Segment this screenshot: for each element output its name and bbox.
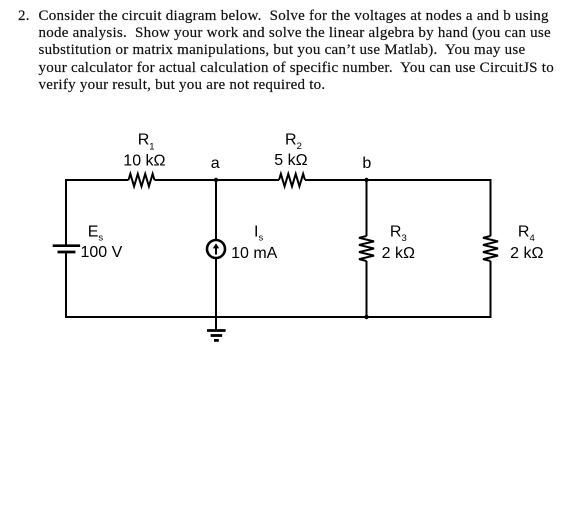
junction dot R3/bottom rail: [364, 315, 368, 319]
wire: node b to top-right corner: [367, 179, 492, 181]
wire: top rail E_s to R1: [65, 179, 129, 181]
svg-text:100 V: 100 V: [81, 244, 123, 261]
svg-text:a: a: [211, 155, 220, 172]
voltage source E_s battery short plate: [58, 251, 76, 254]
wire: node b down to R3: [366, 180, 368, 236]
current source I_s arrow shaft: [215, 246, 217, 255]
svg-text:Is: Is: [254, 224, 263, 244]
resistor R3: [359, 236, 374, 261]
wire: R1 to node a: [155, 179, 217, 181]
wire: right rail top (corner to R4): [490, 179, 492, 236]
wire: bottom rail: [65, 316, 492, 318]
wire: node a to R2: [216, 179, 279, 181]
svg-text:2 kΩ: 2 kΩ: [382, 245, 415, 262]
svg-text:R4: R4: [518, 224, 535, 244]
wire: ground stub: [215, 317, 217, 331]
wire: right rail bottom (R4 to bottom rail): [490, 261, 492, 318]
svg-text:10 mA: 10 mA: [231, 245, 278, 262]
current source I_s circle: [207, 240, 225, 258]
svg-text:2 kΩ: 2 kΩ: [510, 245, 543, 262]
svg-text:10 kΩ: 10 kΩ: [123, 153, 165, 170]
ground symbol: [207, 331, 226, 341]
svg-text:R2: R2: [285, 131, 302, 152]
svg-text:5 kΩ: 5 kΩ: [274, 152, 307, 169]
node a junction dot: [214, 178, 218, 182]
svg-text:b: b: [362, 155, 371, 172]
wire: current source to bottom rail: [215, 258, 217, 317]
wire: left rail top (top rail to E_s): [65, 179, 67, 246]
svg-text:Es: Es: [88, 224, 104, 244]
resistor R2: [279, 174, 305, 187]
current source I_s arrow head: [213, 243, 219, 248]
resistor R1: [129, 174, 155, 187]
svg-text:R1: R1: [138, 132, 155, 153]
voltage source E_s battery long plate: [53, 244, 80, 247]
wire: R2 to node b: [305, 179, 367, 181]
wire: left rail bottom (E_s to bottom rail): [65, 252, 67, 318]
node b junction dot: [364, 178, 368, 182]
wire: node a down to current source: [215, 180, 217, 240]
svg-text:R3: R3: [390, 224, 407, 244]
resistor R4: [483, 236, 498, 261]
problem statement text: [18, 8, 30, 25]
wire: R3 to bottom junction: [366, 261, 368, 317]
